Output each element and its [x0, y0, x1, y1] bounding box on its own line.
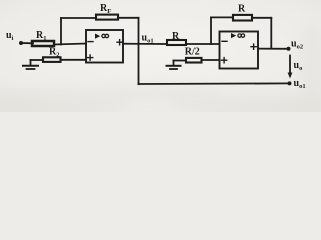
wire feedback right vertical down to output node and bottom rail	[138, 18, 140, 84]
wire U1 output to R (stage2 input)	[123, 43, 167, 45]
wire feedback top left segment	[61, 17, 96, 19]
node ui input terminal	[19, 41, 23, 45]
wire feedback left vertical (node after R1)	[60, 18, 62, 45]
wire feedback2 left vertical	[210, 17, 212, 44]
resistor RF	[96, 15, 118, 20]
wire R to U2 inverting input	[186, 43, 220, 45]
node uo2 terminal	[287, 47, 291, 51]
wire feedback2 top right segment	[252, 17, 271, 19]
voltage arrow uo	[288, 56, 293, 79]
op-amp U2	[220, 32, 259, 69]
wire bottom rail from stage1 output node to uo1 terminal	[139, 82, 290, 85]
svg-text:R/2: R/2	[185, 47, 200, 58]
wire ground2 to R/2	[174, 60, 187, 62]
svg-text:R: R	[172, 31, 180, 42]
svg-text:R: R	[238, 4, 246, 15]
wire R/2 to U2 non-inverting input	[202, 59, 220, 61]
wire feedback top right segment	[118, 17, 139, 19]
ground stage2	[167, 61, 181, 70]
node uo1 terminal	[288, 81, 292, 85]
resistor R2	[43, 57, 61, 62]
wire ui to R1	[22, 42, 33, 44]
wire feedback2 top left segment	[211, 16, 233, 18]
resistor R1	[32, 41, 54, 46]
wire ground to R2	[31, 59, 44, 61]
wire feedback2 right vertical	[270, 18, 272, 49]
wire R1 to U1 inverting input	[54, 44, 86, 45]
ground stage1	[23, 60, 38, 69]
resistor R stage2 feedback	[233, 15, 252, 21]
resistor R stage2 input	[167, 40, 186, 45]
wire U2 output to uo2 terminal	[258, 48, 289, 50]
op-amp U1	[86, 30, 123, 63]
resistor R/2	[186, 58, 202, 63]
wire R2 to U1 non-inverting input	[61, 59, 87, 61]
